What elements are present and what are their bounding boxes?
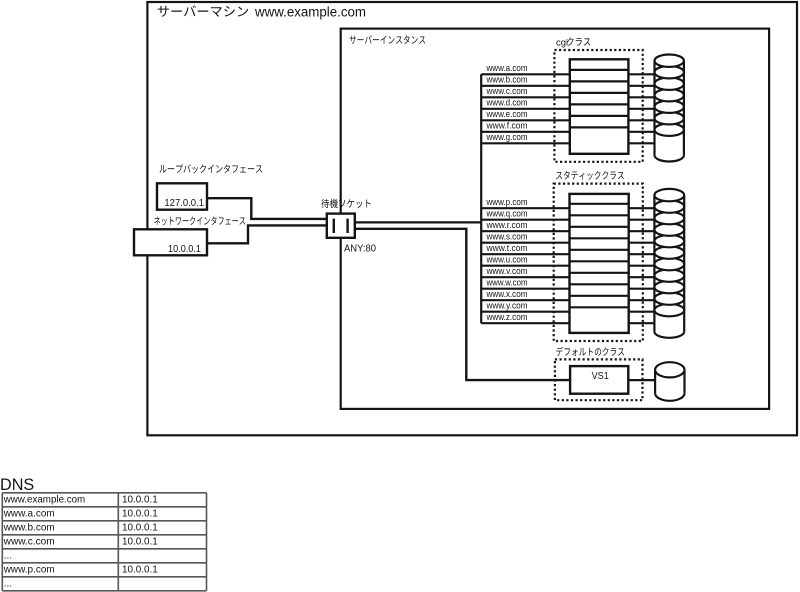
- label: DNS: [0, 475, 34, 494]
- svg-text:127.0.0.1: 127.0.0.1: [164, 198, 204, 209]
- cgi class dotted box: [554, 50, 642, 162]
- svg-text:www.v.com: www.v.com: [486, 266, 528, 276]
- svg-text:www.w.com: www.w.com: [486, 278, 528, 288]
- svg-text:www.y.com: www.y.com: [486, 301, 528, 311]
- row www.x.com: label and wire: [481, 289, 654, 300]
- svg-text:cgi: cgi: [556, 37, 568, 48]
- svg-text:DNS: DNS: [0, 475, 34, 494]
- svg-text:www.t.com: www.t.com: [486, 243, 528, 253]
- DNS table row: www.example.com: [3, 495, 158, 506]
- svg-text:10.0.0.1: 10.0.0.1: [122, 523, 158, 534]
- svg-text:...: ...: [4, 579, 12, 590]
- row www.y.com: label and wire: [481, 301, 654, 312]
- wire: loopback to listening socket: [207, 198, 328, 219]
- svg-text:www.c.com: www.c.com: [486, 86, 528, 96]
- wire: VS1 to default datastore: [628, 379, 655, 381]
- default datastore cylinder: [655, 362, 684, 401]
- svg-text:VS1: VS1: [592, 371, 610, 382]
- DNS table row: ellipsis: [4, 551, 12, 562]
- label: loopback interface: [160, 164, 263, 173]
- svg-text:www.g.com: www.g.com: [486, 132, 528, 142]
- DNS table row: www.b.com: [3, 523, 159, 534]
- label: listening socket: [321, 199, 370, 208]
- svg-text:10.0.0.1: 10.0.0.1: [122, 565, 158, 576]
- title: server machine www.example.com: [158, 4, 366, 19]
- label: server instance: [350, 35, 426, 44]
- svg-text:www.d.com: www.d.com: [486, 98, 528, 108]
- row www.f.com: label and wire: [481, 121, 654, 132]
- row www.v.com: label and wire: [481, 266, 654, 277]
- svg-text:www.p.com: www.p.com: [486, 197, 528, 207]
- row www.b.com: label and wire: [481, 75, 654, 86]
- wire: socket to virtual-host bus: [354, 221, 481, 223]
- svg-text:www.example.com: www.example.com: [3, 495, 85, 506]
- row www.r.com: label and wire: [481, 220, 654, 231]
- row www.e.com: label and wire: [481, 109, 654, 120]
- static virtual server stack: [570, 194, 629, 333]
- row www.g.com: label and wire: [481, 132, 654, 143]
- cgi datastore cylinder stack: [655, 55, 684, 162]
- row www.u.com: label and wire: [481, 255, 654, 266]
- row www.a.com: label and wire: [481, 63, 654, 74]
- svg-text:www.c.com: www.c.com: [3, 537, 55, 548]
- svg-text:www.b.com: www.b.com: [3, 523, 55, 534]
- row www.c.com: label and wire: [481, 86, 654, 97]
- static datastore cylinder stack: [654, 189, 684, 338]
- wire: socket to default class VS1: [354, 229, 570, 380]
- DNS table row: www.c.com: [3, 537, 159, 548]
- svg-text:10.0.0.1: 10.0.0.1: [122, 537, 158, 548]
- svg-text:...: ...: [4, 551, 12, 562]
- bus: virtual host left bus: [480, 74, 482, 323]
- svg-text:www.f.com: www.f.com: [486, 121, 528, 131]
- label: ANY:80: [344, 244, 376, 255]
- svg-text:www.r.com: www.r.com: [486, 220, 528, 230]
- cgi virtual server stack: [570, 59, 629, 154]
- label: cgi class: [556, 37, 590, 48]
- label: network interface: [154, 216, 245, 225]
- svg-text:www.z.com: www.z.com: [486, 312, 528, 322]
- svg-text:www.q.com: www.q.com: [486, 209, 528, 219]
- label: static class: [556, 171, 624, 180]
- svg-text:10.0.0.1: 10.0.0.1: [122, 509, 158, 520]
- network interface box 10.0.0.1: [134, 229, 207, 255]
- row www.d.com: label and wire: [481, 98, 654, 109]
- svg-text:www.a.com: www.a.com: [3, 509, 55, 520]
- DNS table row: www.p.com: [3, 565, 159, 576]
- row www.p.com: label and wire: [481, 197, 654, 208]
- svg-text:www.u.com: www.u.com: [486, 255, 528, 265]
- DNS table row: ellipsis: [4, 579, 12, 590]
- inner box: server instance: [341, 29, 769, 409]
- row www.w.com: label and wire: [481, 278, 654, 289]
- wire: network interface to listening socket: [207, 225, 328, 243]
- static class dotted box: [554, 184, 643, 341]
- svg-text:www.e.com: www.e.com: [486, 109, 528, 119]
- svg-text:ANY:80: ANY:80: [344, 244, 376, 255]
- listening socket box: [327, 214, 355, 238]
- row www.s.com: label and wire: [481, 232, 654, 243]
- svg-text:www.p.com: www.p.com: [3, 565, 55, 576]
- outer box: server machine: [147, 2, 797, 435]
- row www.q.com: label and wire: [481, 209, 654, 220]
- DNS table row: www.a.com: [3, 509, 159, 520]
- row www.z.com: label and wire: [481, 312, 654, 323]
- VS1 box: [570, 366, 628, 394]
- svg-text:www.x.com: www.x.com: [486, 289, 528, 299]
- svg-text:www.s.com: www.s.com: [486, 232, 528, 242]
- loopback interface box 127.0.0.1: [157, 183, 207, 209]
- svg-text:www.a.com: www.a.com: [486, 63, 528, 73]
- svg-text:10.0.0.1: 10.0.0.1: [168, 244, 201, 255]
- default class dotted box: [555, 359, 643, 400]
- svg-text:www.example.com: www.example.com: [254, 4, 366, 19]
- row www.t.com: label and wire: [481, 243, 654, 254]
- svg-text:www.b.com: www.b.com: [486, 75, 528, 85]
- svg-text:10.0.0.1: 10.0.0.1: [122, 495, 158, 506]
- label: default class: [556, 347, 624, 356]
- DNS table grid: [2, 493, 206, 591]
